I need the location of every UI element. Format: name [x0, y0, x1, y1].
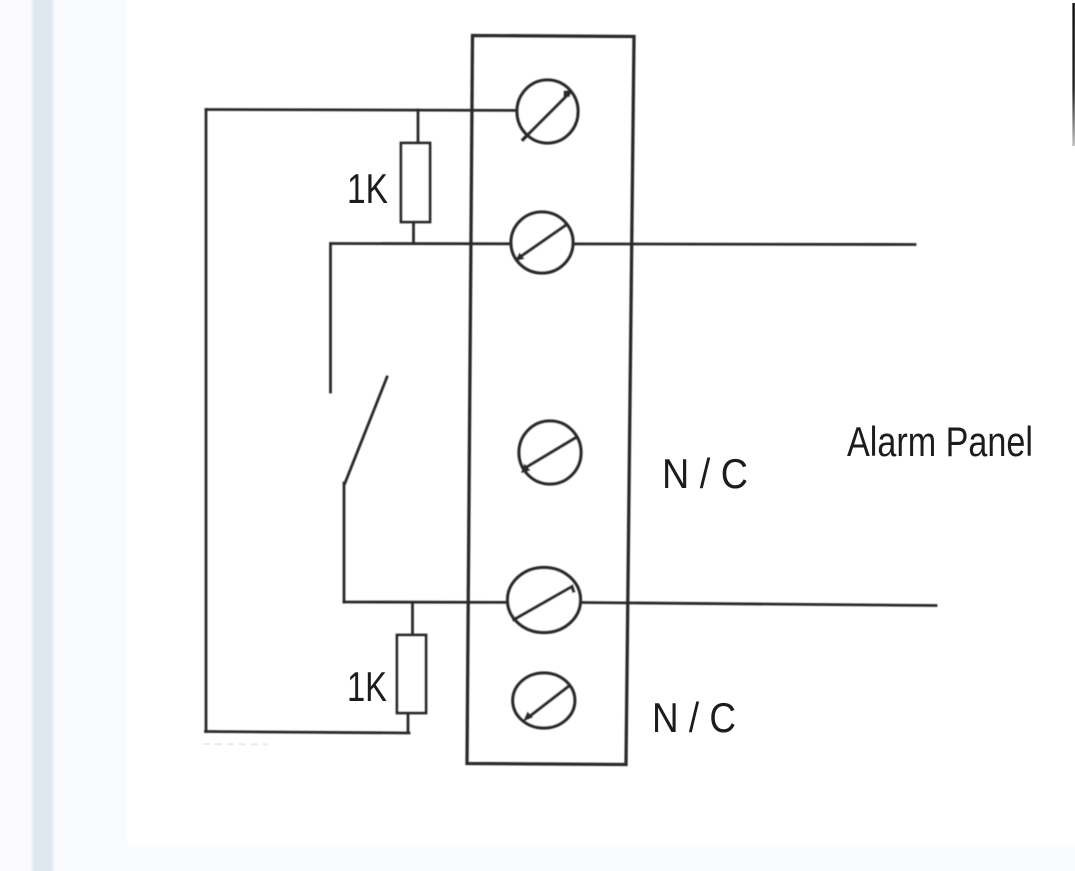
wire bottom — [206, 732, 410, 734]
terminal 1 — [517, 80, 578, 143]
terminal 5 — [513, 673, 575, 728]
switch S1 — [331, 244, 388, 603]
terminal 3 — [519, 421, 581, 484]
wire left vertical — [205, 110, 208, 732]
terminal 4 — [508, 568, 581, 633]
svg-text:N / C: N / C — [652, 694, 736, 741]
page edge line (right) — [1072, 3, 1074, 146]
faint artifact dashes under bottom wire — [203, 743, 268, 746]
wire node2 horizontal (runs behind terminal 2) — [331, 244, 915, 245]
terminal 2 — [511, 212, 573, 273]
wire node4 horizontal (runs behind terminal 4) — [344, 602, 936, 606]
svg-text:Alarm Panel: Alarm Panel — [847, 418, 1033, 465]
svg-text:N / C: N / C — [662, 450, 748, 497]
wire top: left node to terminal 1 — [206, 110, 540, 111]
resistor R2 — [397, 603, 426, 732]
resistor R1 — [401, 110, 430, 243]
svg-text:1K: 1K — [347, 165, 388, 212]
terminal block — [467, 36, 634, 765]
svg-text:1K: 1K — [347, 663, 387, 710]
